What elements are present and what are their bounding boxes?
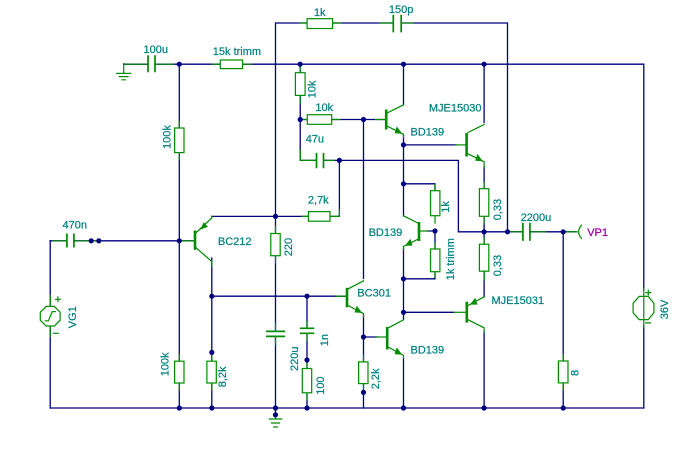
- wire BC301 collector to VAS node: [363, 120, 365, 279]
- svg-text:8,2k: 8,2k: [217, 366, 229, 387]
- wire 1k trimm bottom: [404, 272, 436, 279]
- resistor 8,2k: [207, 355, 229, 390]
- wire BC301 emitter branch: [363, 316, 365, 409]
- junction (363,119): [361, 117, 366, 122]
- resistor 1k trimm: [431, 238, 458, 280]
- junction (179,241): [177, 238, 182, 243]
- svg-text:15k trimm: 15k trimm: [213, 46, 261, 58]
- capacitor 47u: [300, 134, 334, 169]
- wire 36V supply branch: [643, 64, 645, 408]
- ground (top left): [117, 64, 131, 80]
- wire lower driver base: [364, 336, 379, 338]
- junction (484,232): [482, 229, 487, 234]
- wire MJE15031 base: [404, 311, 455, 313]
- junction (307,360): [304, 357, 309, 362]
- resistor 10k (horizontal): [301, 102, 340, 124]
- capacitor 1n: [300, 322, 331, 347]
- svg-text:BC212: BC212: [218, 236, 252, 248]
- svg-text:220u: 220u: [289, 347, 301, 371]
- junction (403,64): [401, 62, 406, 67]
- node dots after 470n: [89, 238, 102, 243]
- svg-text:1k: 1k: [314, 7, 326, 19]
- wire 1n compensation branch: [306, 296, 308, 408]
- resistor 2,7k: [302, 194, 339, 221]
- transistor BD139 (pre-driver): [376, 105, 445, 139]
- svg-text:10k: 10k: [307, 80, 319, 98]
- junction (300,119): [298, 117, 303, 122]
- svg-text:1k trimm: 1k trimm: [445, 238, 457, 280]
- junction (211,352): [209, 350, 214, 355]
- wire 220 bootstrap branch: [275, 216, 277, 414]
- svg-text:1k: 1k: [440, 201, 452, 213]
- svg-text:47u: 47u: [306, 134, 324, 146]
- wire output node: [458, 231, 576, 233]
- resistor 15k trimm: [212, 46, 261, 69]
- battery 36V: [633, 288, 671, 328]
- svg-text:VP1: VP1: [587, 227, 608, 239]
- wire driver bias chain lower: [403, 249, 405, 320]
- wire input bias vertical: [178, 64, 180, 408]
- junction (307,408): [304, 405, 309, 410]
- capacitor C1 100u: [125, 44, 174, 72]
- junction (563,232): [561, 229, 566, 234]
- resistor 0,33 (upper): [479, 183, 504, 224]
- resistor 1k (feedback): [300, 7, 392, 29]
- junction (179,64): [177, 62, 182, 67]
- wire feedback loop top: [276, 23, 508, 232]
- wire top supply rail: [124, 63, 644, 65]
- wire bottom rail: [50, 407, 644, 409]
- junction (403,145): [401, 142, 406, 147]
- svg-text:100k: 100k: [159, 352, 171, 376]
- wire BC301 base: [212, 295, 346, 297]
- transistor BD139 (lower driver): [376, 320, 444, 359]
- wire VG1 branch: [49, 241, 51, 408]
- transistor MJE15030: [429, 102, 484, 167]
- svg-text:36V: 36V: [659, 299, 671, 319]
- transistor Q1 BC212: [179, 216, 251, 266]
- junction (403,279): [401, 276, 406, 281]
- svg-text:BD139: BD139: [369, 227, 403, 239]
- wire lower driver emitter: [403, 358, 405, 408]
- wire rail to 10k: [299, 64, 301, 119]
- wire 47u bootstrap to output: [324, 160, 459, 231]
- junction (275,216): [273, 214, 278, 219]
- junction (484,408): [482, 405, 487, 410]
- transistor BD139 (Vbe multiplier): [369, 216, 428, 250]
- wire MJE15030 base: [404, 144, 457, 146]
- svg-text:BC301: BC301: [357, 287, 391, 299]
- terminal VP1: [566, 225, 608, 239]
- svg-text:MJE15030: MJE15030: [429, 102, 482, 114]
- junction (363,337): [361, 334, 366, 339]
- generator VG1: [40, 296, 79, 337]
- svg-text:100k: 100k: [161, 125, 173, 149]
- junction (563,408): [561, 405, 566, 410]
- wire BD139 pre-driver collector: [403, 64, 405, 104]
- junction (300,64): [298, 62, 303, 67]
- svg-text:8: 8: [569, 370, 581, 376]
- junction (508,232): [505, 229, 510, 234]
- resistor 8 (load): [558, 355, 581, 391]
- wire input signal: [50, 240, 193, 242]
- wire driver bias chain upper: [403, 145, 405, 216]
- junction (211,296): [209, 294, 214, 299]
- wire BC212 emitter node: [212, 160, 340, 216]
- junction (211,408): [209, 405, 214, 410]
- transistor MJE15031: [454, 271, 544, 333]
- svg-text:0,33: 0,33: [492, 255, 504, 276]
- capacitor C2 470n: [53, 219, 102, 247]
- wire 1k VAS load top: [404, 184, 436, 191]
- junction (484,64): [482, 62, 487, 67]
- capacitor 2200u: [510, 212, 551, 241]
- wire Vbe multiplier base: [427, 231, 435, 249]
- junction (275,415): [273, 412, 278, 417]
- wire 10k junction to 47u: [300, 120, 316, 161]
- svg-text:BD139: BD139: [411, 126, 445, 138]
- svg-text:VG1: VG1: [67, 306, 79, 328]
- transistor BC301: [336, 281, 391, 317]
- capacitor 150p: [389, 4, 413, 33]
- resistor 0,33 (lower): [479, 238, 504, 279]
- resistor 220: [271, 226, 295, 263]
- junction (435,231): [432, 228, 437, 233]
- junction (179,408): [177, 405, 182, 410]
- svg-text:2200u: 2200u: [521, 212, 552, 224]
- svg-text:100: 100: [315, 376, 327, 394]
- junction (307,296): [304, 294, 309, 299]
- resistor 1k (VAS load): [431, 185, 453, 224]
- wire BD139 pre-driver emitter: [403, 136, 405, 145]
- svg-text:10k: 10k: [315, 102, 333, 114]
- junction (403,184): [401, 181, 406, 186]
- wire MJE15030 collector: [483, 64, 485, 122]
- svg-text:150p: 150p: [389, 4, 413, 16]
- resistor 100: [302, 362, 327, 400]
- junction (339,160): [337, 158, 342, 163]
- junction (403,312): [401, 310, 406, 315]
- svg-text:1n: 1n: [319, 334, 331, 346]
- svg-text:220: 220: [283, 238, 295, 256]
- wire speaker branch: [562, 232, 564, 408]
- svg-text:470n: 470n: [63, 219, 87, 231]
- svg-text:BD139: BD139: [411, 344, 445, 356]
- resistor 10k (vertical): [295, 65, 318, 103]
- resistor 2,2k: [359, 356, 382, 391]
- junction (275,408): [273, 405, 278, 410]
- junction (403,408): [401, 405, 406, 410]
- resistor 100k (upper): [161, 121, 184, 160]
- wire output devices column: [483, 167, 485, 409]
- ground (bottom): [269, 413, 281, 427]
- svg-text:100u: 100u: [144, 44, 168, 56]
- wire 10k junction to BD139 base: [300, 119, 385, 121]
- resistor 100k (lower): [159, 352, 184, 390]
- svg-text:MJE15031: MJE15031: [492, 295, 545, 307]
- svg-text:2,2k: 2,2k: [370, 368, 382, 389]
- junction (363,392): [361, 390, 366, 395]
- svg-text:0,33: 0,33: [492, 199, 504, 220]
- svg-text:2,7k: 2,7k: [308, 194, 329, 206]
- capacitor 220u: [266, 324, 301, 372]
- wire BC212 collector branch: [211, 258, 213, 408]
